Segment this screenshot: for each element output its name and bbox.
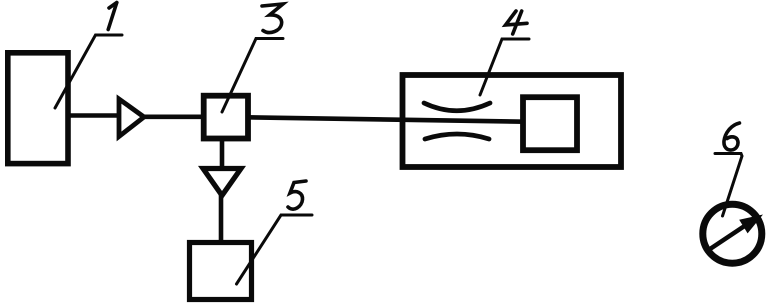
label 4	[480, 11, 529, 95]
wire block 3 down to attenuator	[220, 138, 225, 168]
label 1	[55, 3, 122, 109]
upper arc of cavity	[424, 103, 490, 111]
block 5 (load square)	[190, 243, 252, 300]
meter circle (indicator 6)	[703, 204, 762, 263]
meter needle arrow	[707, 215, 763, 252]
label 3	[222, 4, 283, 112]
label 6	[715, 123, 742, 216]
inner square (detector) in block 4	[523, 97, 577, 150]
lower arc of cavity	[425, 134, 489, 139]
wire block1 to amplifier	[66, 113, 121, 118]
block 1 (source)	[8, 53, 68, 164]
block 4 (cavity resonator enclosure)	[403, 75, 622, 167]
label 5	[237, 181, 313, 284]
attenuator triangle (down-pointing)	[203, 169, 241, 196]
wire attenuator to block 5	[219, 195, 224, 243]
block 3 (mixer square)	[204, 96, 248, 139]
amplifier triangle (right-pointing)	[119, 99, 144, 137]
wire block 3 to block 4 cavity	[247, 117, 524, 121]
wire amplifier to block 3	[143, 115, 204, 120]
